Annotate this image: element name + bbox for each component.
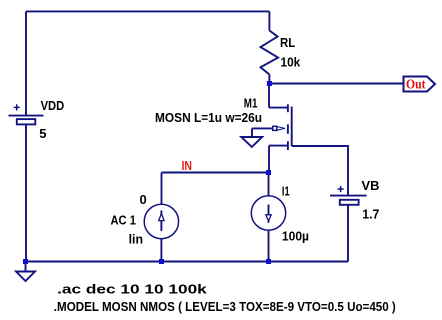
battery VDD [9,104,44,124]
svg-text:10k: 10k [281,54,301,69]
resistor RL [261,11,279,83]
svg-text:M1: M1 [244,97,258,111]
svg-text:VB: VB [362,179,380,193]
svg-text:1.7: 1.7 [362,206,379,221]
svg-text:I1: I1 [282,185,290,199]
wire out horizontal [269,83,403,85]
svg-text:MOSN L=1u w=26u: MOSN L=1u w=26u [155,110,262,125]
node junction bus left [23,259,28,264]
source AC1 circle [144,204,178,238]
node junction bus below AC1 [159,259,164,264]
wire drain vertical [268,84,270,108]
wire node IN horizontal [162,172,269,174]
wire VB bottom [347,205,349,262]
node junction bus below I1 [266,259,271,264]
svg-text:.MODEL MOSN NMOS ( LEVEL=3 TOX: .MODEL MOSN NMOS ( LEVEL=3 TOX=8E-9 VTO=… [54,299,396,314]
svg-text:RL: RL [280,36,296,50]
ground (bottom left) [16,262,35,282]
transistor M1 [252,104,292,150]
wire VDD bottom to bus [25,124,27,261]
port Out [404,77,436,92]
svg-text:5: 5 [39,126,46,141]
battery VB [330,186,367,205]
wire ground bus [26,261,349,263]
ground (bulk of M1) [241,128,262,147]
svg-text:IN: IN [182,158,193,173]
wire IN to I1 [268,173,270,196]
wire source vertical [268,146,270,173]
wire left vertical [25,11,27,115]
svg-text:0: 0 [140,192,147,207]
node junction IN [266,170,271,175]
svg-text:VDD: VDD [41,99,65,113]
svg-text:.ac dec 10 10 100k: .ac dec 10 10 100k [57,281,208,296]
wire AC source bottom [160,239,162,262]
current source I1 circle [251,196,285,230]
svg-text:100µ: 100µ [282,229,309,244]
wire top horizontal [26,10,269,12]
wire AC source top [161,173,163,205]
svg-text:Out: Out [406,78,426,93]
svg-text:lin: lin [129,232,144,247]
node junction below RL [267,81,272,86]
svg-text:AC 1: AC 1 [111,213,136,228]
wire gate to VB [292,146,348,196]
wire I1 bottom [268,230,270,261]
